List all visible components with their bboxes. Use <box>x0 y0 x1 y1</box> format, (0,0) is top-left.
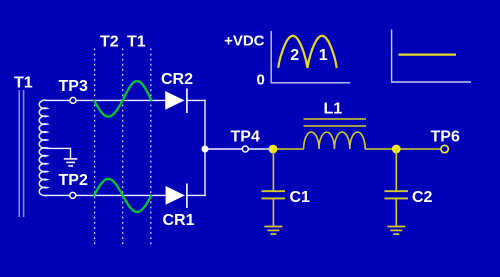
svg-text:2: 2 <box>290 47 299 64</box>
diode CR1 <box>166 186 185 205</box>
svg-text:L1: L1 <box>324 101 343 118</box>
wire L1 to TP6 <box>365 148 441 150</box>
svg-text:TP6: TP6 <box>431 129 460 146</box>
svg-text:TP3: TP3 <box>59 78 88 95</box>
wire center tap <box>47 148 71 158</box>
svg-text:T1: T1 <box>14 75 33 92</box>
inductor L1 <box>304 132 366 149</box>
svg-text:C2: C2 <box>412 189 433 206</box>
svg-text:0: 0 <box>257 71 265 88</box>
transformer T1 secondary winding <box>39 100 47 196</box>
ground C2 <box>387 227 405 235</box>
svg-text:T2: T2 <box>100 34 119 51</box>
wire rectifier bus <box>204 100 206 196</box>
svg-text:CR2: CR2 <box>161 71 193 88</box>
svg-text:1: 1 <box>319 47 328 64</box>
node TP4 <box>242 146 248 152</box>
dashed line left <box>94 49 96 247</box>
wire yellow node1 to L1 <box>273 148 304 150</box>
svg-text:C1: C1 <box>290 189 311 206</box>
svg-text:CR1: CR1 <box>163 212 195 229</box>
wire CR2 output <box>187 99 206 101</box>
wire CR1 output <box>187 194 206 196</box>
rectified waveform humps <box>278 36 337 68</box>
wire secondary top to TP3 to CR2 <box>46 99 165 101</box>
wire junction to yellow node <box>205 148 273 150</box>
graph axes +VDC <box>271 31 351 83</box>
wire secondary bottom to TP2 to CR1 <box>46 194 166 196</box>
L1 core lines <box>304 119 367 126</box>
junction yellow node1 <box>269 145 278 154</box>
svg-text:T1: T1 <box>127 34 146 51</box>
ground center tap <box>64 159 78 166</box>
transformer T1 core <box>19 90 23 217</box>
waveform bottom sine <box>94 179 151 212</box>
junction yellow node2 <box>392 145 401 154</box>
dashed line middle <box>122 49 124 247</box>
node TP6 <box>441 145 448 152</box>
node TP2 <box>70 192 76 198</box>
svg-text:TP2: TP2 <box>59 172 88 189</box>
capacitor C2 <box>385 149 409 227</box>
graph axes DC output <box>391 30 471 83</box>
DC level line <box>399 53 457 55</box>
diode CR2 <box>165 91 184 110</box>
capacitor C1 <box>262 149 286 227</box>
svg-text:+VDC: +VDC <box>224 32 265 49</box>
node TP3 <box>70 97 76 103</box>
waveform top sine <box>94 81 151 117</box>
dashed line right <box>150 49 152 247</box>
junction node <box>202 146 209 153</box>
svg-text:TP4: TP4 <box>231 129 260 146</box>
ground C1 <box>264 227 282 235</box>
